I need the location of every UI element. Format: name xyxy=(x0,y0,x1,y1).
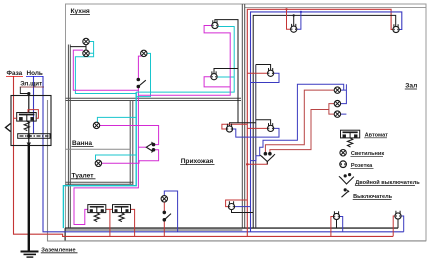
node: panel input junction xyxy=(20,87,29,94)
svg-text:Двойной выключатель: Двойной выключатель xyxy=(355,179,420,186)
svg-text:Зал: Зал xyxy=(405,83,417,90)
socket: hallway upper xyxy=(226,124,232,132)
legend: socket symbol xyxy=(340,161,347,168)
wire: hallway lower socket blue xyxy=(235,206,251,208)
wire: main ground conductor xyxy=(28,144,30,252)
lamp: chandelier 2 xyxy=(334,100,340,106)
breaker box1 hallway xyxy=(88,205,106,222)
wire: zal bottom-left socket red/blue/ground xyxy=(331,217,334,237)
wire: zal bottom-right socket red/blue/ground xyxy=(393,216,395,236)
socket: zal side lower xyxy=(268,123,274,131)
svg-text:Ванна: Ванна xyxy=(72,140,92,147)
label: Tualet xyxy=(71,172,96,179)
wire: zal red riser and top bus xyxy=(247,9,393,236)
wall: toilet bottom xyxy=(66,182,134,184)
wire: cyan kitchen twin-lamp loop xyxy=(75,42,136,94)
wire: black link border to gray bus xyxy=(64,228,66,241)
lamp: chandelier 3 xyxy=(334,111,340,117)
socket: zal bottom-left xyxy=(333,211,339,219)
socket: kitchen lower on wall xyxy=(211,71,217,79)
circuit breaker QF1 in panel xyxy=(17,113,37,122)
wire: cyan toilet lamp neutral xyxy=(96,155,137,160)
wire: magenta kitchen twin-lamp feed xyxy=(73,50,138,90)
wire: zal blue riser and top bus xyxy=(251,12,402,232)
lamp: kitchen right xyxy=(141,50,147,56)
svg-text:Прихожая: Прихожая xyxy=(181,158,214,165)
wire: navy second riser xyxy=(255,65,257,229)
wire: main black through panel xyxy=(28,94,30,144)
node: panel bottom exit arrow xyxy=(27,143,31,147)
label: Prihozhaya xyxy=(180,158,214,165)
wire: hallway lamp-switch red xyxy=(163,202,165,236)
wire: magenta bath lamp to double switch xyxy=(100,126,159,145)
svg-text:Ноль: Ноль xyxy=(27,70,43,77)
legend: lamp symbol xyxy=(340,150,346,156)
label: Svetilnik xyxy=(351,151,385,157)
wire: black stub to kitchen twin lamps xyxy=(70,45,86,51)
wire: hallway lower socket ground xyxy=(232,210,254,213)
wire: black grounds zal side sockets xyxy=(230,65,271,126)
wire: chandelier red group2 xyxy=(270,104,335,153)
svg-text:Туалет: Туалет xyxy=(72,172,95,179)
wire: ground stub zal top-left socket xyxy=(293,15,295,26)
wire: cyan kitchen right lamp drop xyxy=(136,53,150,96)
socket: zal top-left xyxy=(291,24,297,32)
wire: magenta kitchen trunk to sockets xyxy=(138,26,230,96)
switch: hallway xyxy=(163,211,171,221)
lamp: hallway xyxy=(161,196,167,202)
breaker hook squiggle xyxy=(24,121,29,131)
label: Vanna xyxy=(72,140,94,147)
lamp: chandelier 1 xyxy=(334,87,340,93)
socket: zal side upper xyxy=(268,68,274,76)
wire: red phase to zal double switch xyxy=(247,161,267,164)
label: Vyklyuchatel xyxy=(353,194,393,200)
socket: hallway lower xyxy=(228,201,234,209)
svg-text:Кухня: Кухня xyxy=(71,8,90,15)
wall: bottom inner line left part xyxy=(65,229,242,231)
socket: zal top-right xyxy=(393,24,399,32)
wire: hallway lower socket red bracket xyxy=(226,200,248,207)
label: Avtomat xyxy=(364,132,388,138)
wire: magenta kitchen lamp2-switch drop xyxy=(74,56,142,224)
svg-text:Эл.щит: Эл.щит xyxy=(20,81,42,88)
wire: magenta toilet lamp to double switch xyxy=(102,150,159,164)
wire: gray PE from panel along bottom xyxy=(48,100,427,241)
label: Faza xyxy=(6,70,23,77)
wall: bath-hall vertical xyxy=(130,101,133,185)
label: Kuhnya xyxy=(70,8,90,15)
double switch: zal xyxy=(260,152,275,164)
wall: zal top inner line xyxy=(245,7,426,9)
wire: black kitchen socket grounds xyxy=(214,20,238,123)
double switch: bath/toilet xyxy=(146,142,155,153)
wire: red feeds zal side sockets xyxy=(247,73,267,128)
lamp: kitchen twin lower xyxy=(83,50,89,56)
wire: ground bus along bottom wall (black) xyxy=(65,227,398,229)
wire: chandelier blue loop xyxy=(251,84,347,160)
svg-text:Фаза: Фаза xyxy=(7,70,23,77)
wall: zal left vertical double xyxy=(242,4,244,228)
red feed into breaker xyxy=(14,110,39,119)
wire: cyan bath lamp neutral xyxy=(97,117,136,122)
busbar in panel xyxy=(18,134,50,139)
label: Dvoinoi vyklyuchatel xyxy=(355,179,420,186)
wire: magenta common to bath double switch xyxy=(138,146,146,148)
ground symbol xyxy=(21,252,39,258)
wire: red bracket hallway upper socket xyxy=(222,124,247,129)
wire: chandelier red group1 xyxy=(265,90,334,152)
socket: kitchen upper on wall xyxy=(212,20,218,28)
label: Zal xyxy=(405,83,418,90)
wall: kitchen bottom xyxy=(66,98,242,100)
switch: kitchen xyxy=(137,78,146,88)
legend: switch symbol xyxy=(342,189,350,197)
label: Nol xyxy=(26,70,43,77)
wire: cyan kitchen trunk to sockets xyxy=(136,27,234,93)
legend: double switch symbol xyxy=(339,174,354,185)
wire: zal black ground riser and top run xyxy=(253,15,396,228)
legend: breaker symbol xyxy=(341,130,360,147)
wire: red+blue elbows of zal top-left socket xyxy=(287,9,291,29)
wire: blue wraps zal side sockets xyxy=(233,73,279,137)
breaker box2 hallway xyxy=(113,205,131,222)
supply arrow < xyxy=(6,124,11,132)
lamp: bath xyxy=(93,122,99,128)
wire: blue neutral bus bottom xyxy=(43,76,404,232)
lamp: kitchen twin upper xyxy=(83,38,89,44)
apartment outer border xyxy=(66,4,427,241)
wire: magenta into hall breaker box1 done above; red links of boxes xyxy=(106,209,135,236)
wire: red phase bus bottom xyxy=(14,76,394,236)
wire: blue from Nol label to panel busbar xyxy=(33,76,35,134)
label: Rozetka xyxy=(351,163,374,169)
panel box (El.shchit) xyxy=(11,96,51,146)
wall: left inner double xyxy=(68,45,70,229)
wire: hallway lamp blue neutral xyxy=(164,191,177,232)
label: El.shchit xyxy=(20,81,44,88)
lamp: toilet xyxy=(95,160,101,166)
socket: zal bottom-right xyxy=(395,211,401,219)
wall: bath-toilet divider xyxy=(66,148,131,150)
label: Zazemlenie xyxy=(41,247,78,253)
